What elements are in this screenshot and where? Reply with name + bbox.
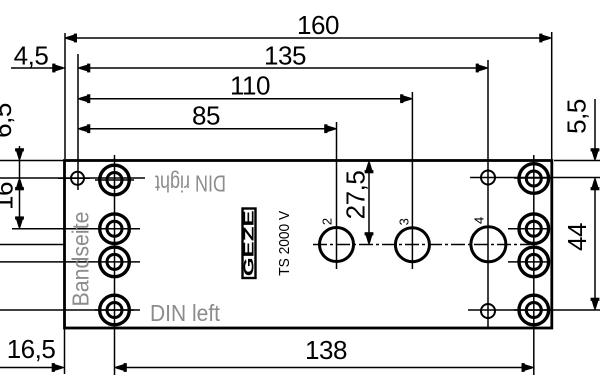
svg-text:160: 160: [297, 10, 339, 40]
svg-text:4,5: 4,5: [14, 41, 49, 71]
svg-text:85: 85: [192, 101, 220, 131]
svg-text:135: 135: [264, 41, 306, 71]
svg-text:GEZE: GEZE: [241, 210, 258, 276]
svg-text:TS 2000 V: TS 2000 V: [276, 211, 293, 276]
svg-text:4: 4: [472, 217, 487, 224]
svg-text:110: 110: [230, 71, 270, 101]
svg-text:2: 2: [320, 218, 335, 225]
svg-text:16: 16: [0, 182, 19, 210]
svg-text:44: 44: [562, 223, 592, 251]
svg-text:27,5: 27,5: [341, 171, 371, 220]
svg-text:6,5: 6,5: [0, 103, 17, 138]
svg-text:16,5: 16,5: [7, 334, 56, 364]
svg-text:3: 3: [397, 218, 412, 225]
svg-text:DIN right: DIN right: [155, 171, 226, 197]
svg-text:138: 138: [305, 335, 347, 365]
svg-text:5,5: 5,5: [562, 99, 592, 134]
svg-text:Bandseite: Bandseite: [68, 212, 94, 307]
svg-text:DIN left: DIN left: [150, 300, 221, 326]
